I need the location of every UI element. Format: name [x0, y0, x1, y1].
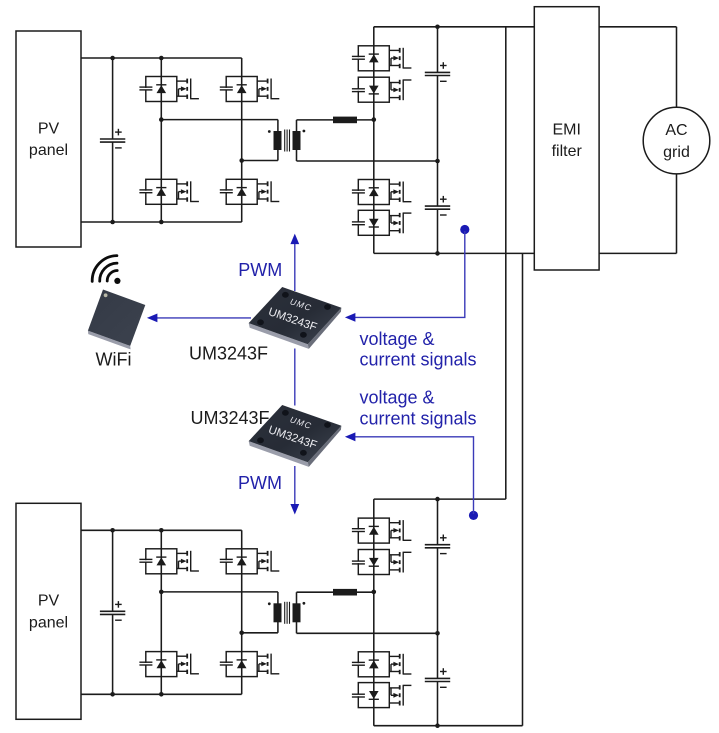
wire output converter leg (top): [373, 27, 375, 254]
wire DC-link capacitor branch (bottom): [112, 530, 114, 694]
MOSFET switch Q14 bidirectional pair element: [352, 550, 412, 575]
AC grid circle: [643, 107, 710, 174]
wire transformer secondary bottom to cap midpoint rail (bottom): [297, 622, 438, 634]
junction dots input bridge (top): [110, 56, 244, 225]
wire output converter leg (bottom): [373, 499, 375, 726]
MOSFET switch Q13 bidirectional pair element: [352, 518, 412, 543]
wire bottom rail of input bridge (top): [81, 221, 242, 223]
wire top rail of input bridge (bottom): [81, 529, 242, 531]
svg-text:current signals: current signals: [360, 409, 477, 429]
svg-text:grid: grid: [663, 144, 690, 161]
wire voltage/current sense to top controller: [345, 231, 465, 322]
wire left bridge leg (bottom): [160, 530, 162, 694]
label voltage and current signals top: [360, 329, 477, 370]
junction dots output converter (top): [372, 25, 440, 256]
node voltage sense tap bottom (blue dot): [469, 511, 478, 520]
wire top rail of input bridge (top): [81, 57, 242, 59]
svg-text:voltage &: voltage &: [360, 329, 435, 349]
MOSFET switch Q6 bidirectional pair element: [352, 77, 412, 102]
wire inductor to cyclo leg node (top): [357, 119, 374, 121]
node voltage sense tap top (blue dot): [460, 225, 469, 234]
wire output top rail (top): [374, 26, 535, 28]
wire transformer secondary top to inductor (bottom): [297, 592, 334, 604]
wire right-leg midpoint to transformer primary bottom (top): [242, 150, 278, 161]
svg-text:PWM: PWM: [238, 260, 282, 280]
transformer T (top) windings and core: [268, 130, 305, 152]
wire transformer secondary bottom to cap midpoint rail (top): [297, 150, 438, 162]
svg-text:panel: panel: [29, 614, 68, 631]
capacitor lower split cap (top): [425, 196, 450, 215]
svg-text:PWM: PWM: [238, 473, 282, 493]
wire inductor to cyclo leg node (bottom): [357, 591, 374, 593]
MOSFET switch Q15 bidirectional pair element: [352, 652, 412, 677]
svg-text:filter: filter: [552, 143, 583, 160]
wire output bottom rail (top): [374, 252, 535, 254]
MOSFET switch Q7 bidirectional pair element: [352, 180, 412, 205]
wire blue link between controllers: [294, 349, 296, 406]
svg-text:PV: PV: [38, 593, 60, 610]
wire left-leg midpoint to transformer primary top (bottom): [161, 592, 278, 604]
wire vertical bus right (bottom rail to bottom converter): [522, 253, 524, 725]
MOSFET switch Q3 with body diode and snubber cap: [139, 179, 198, 204]
MOSFET switch Q1 with body diode and snubber cap: [139, 77, 198, 102]
wire AC grid bottom to EMI filter: [599, 174, 676, 254]
wire left bridge leg (top): [160, 58, 162, 222]
PV panel box (top): [16, 31, 81, 247]
wire arrow controller to WiFi module: [147, 314, 251, 323]
MOSFET switch Q5 bidirectional pair element: [352, 46, 412, 71]
capacitor upper split cap (bottom): [425, 535, 450, 554]
svg-text:panel: panel: [29, 142, 68, 159]
PWM arrow up to top converter: [290, 234, 299, 291]
wire right bridge leg (top): [241, 58, 243, 222]
label voltage and current signals bottom: [360, 388, 477, 429]
wire voltage/current sense to bottom controller: [345, 432, 474, 514]
inductor L (top): [333, 117, 357, 124]
wire bottom rail of input bridge (bottom): [81, 693, 242, 695]
wire left-leg midpoint to transformer primary top (top): [161, 120, 278, 132]
MOSFET switch Q4 with body diode and snubber cap: [220, 179, 279, 204]
wire DC-link capacitor branch (top): [112, 58, 114, 222]
MOSFET switch Q10 with body diode and snubber cap: [220, 549, 279, 574]
capacitor DC-link (bottom): [100, 601, 125, 620]
MOSFET switch Q8 bidirectional pair element: [352, 210, 412, 235]
svg-text:EMI: EMI: [552, 122, 580, 139]
wire output bottom rail (bottom): [374, 725, 523, 727]
wire EMI filter to AC grid top: [599, 27, 676, 108]
microcontroller chip U2 (UM3243F): [249, 405, 342, 467]
MOSFET switch Q11 with body diode and snubber cap: [139, 652, 198, 677]
WiFi antenna symbol: [92, 256, 120, 284]
transformer T (bottom) windings and core: [268, 602, 305, 624]
capacitor DC-link (top): [100, 129, 125, 148]
PV panel box (bottom): [16, 503, 81, 719]
EMI filter box: [534, 7, 599, 270]
wire right-leg midpoint to transformer primary bottom (bottom): [242, 622, 278, 633]
wire output top rail (bottom): [374, 498, 506, 500]
capacitor lower split cap (bottom): [425, 668, 450, 687]
WiFi module chip: [88, 290, 146, 350]
wire vertical bus left (top rail to bottom converter): [505, 27, 507, 499]
microcontroller chip U1 (UM3243F): [249, 287, 342, 349]
MOSFET switch Q9 with body diode and snubber cap: [139, 549, 198, 574]
svg-text:voltage &: voltage &: [360, 388, 435, 408]
svg-text:WiFi: WiFi: [96, 350, 132, 370]
inductor L (bottom): [333, 589, 357, 596]
svg-text:UM3243F: UM3243F: [189, 343, 268, 363]
wire transformer secondary top to inductor (top): [297, 120, 334, 132]
svg-text:PV: PV: [38, 120, 60, 137]
MOSFET switch Q16 bidirectional pair element: [352, 683, 412, 708]
MOSFET switch Q2 with body diode and snubber cap: [220, 77, 279, 102]
wire right bridge leg (bottom): [241, 530, 243, 694]
junction dots output converter (bottom): [372, 497, 440, 728]
svg-text:AC: AC: [665, 122, 687, 139]
capacitor upper split cap (top): [425, 62, 450, 81]
junction dots input bridge (bottom): [110, 528, 244, 697]
wire split-capacitor rail (top): [437, 27, 439, 254]
wire split-capacitor rail (bottom): [437, 499, 439, 726]
MOSFET switch Q12 with body diode and snubber cap: [220, 652, 279, 677]
svg-text:UM3243F: UM3243F: [191, 408, 270, 428]
PWM arrow down to bottom converter: [290, 466, 299, 515]
svg-text:current signals: current signals: [360, 350, 477, 370]
